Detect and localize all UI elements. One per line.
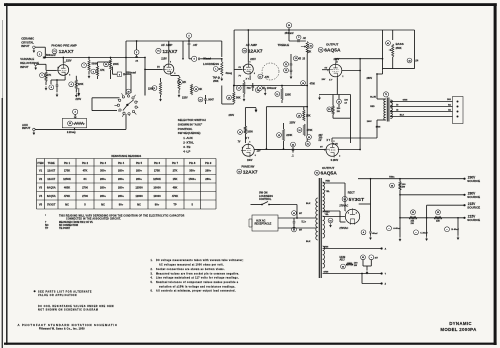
- svg-text:270VAC: 270VAC: [339, 227, 348, 230]
- svg-text:.047: .047: [193, 44, 198, 47]
- speaker wires: [390, 101, 452, 117]
- svg-text:Pin 8: Pin 8: [189, 161, 196, 165]
- label 12V: [257, 151, 262, 153]
- capacitor C5 .047 top: [186, 33, 198, 48]
- output label top: [326, 42, 339, 46]
- svg-text:740: 740: [247, 87, 252, 90]
- svg-text:VARIABLE: VARIABLE: [20, 57, 34, 61]
- svg-text:280+: 280+: [118, 177, 124, 181]
- svg-text:BLUE: BLUE: [370, 97, 376, 99]
- wire plate V4 drop: [376, 120, 378, 138]
- svg-text:OUTPUT: OUTPUT: [322, 166, 335, 170]
- svg-text:6AQ5A: 6AQ5A: [324, 48, 341, 54]
- wire bus2: [221, 41, 223, 57]
- svg-text:©Howard W. Sams & Co., Inc. 19: ©Howard W. Sams & Co., Inc. 1959: [39, 328, 85, 331]
- svg-text:4 -LP: 4 -LP: [183, 150, 190, 154]
- label 290V SOURCE: [467, 176, 480, 183]
- svg-text:DYNAMIC: DYNAMIC: [449, 321, 472, 326]
- tube label V1B 12AX7: [156, 48, 178, 55]
- svg-text:BRN: BRN: [376, 127, 381, 129]
- svg-text:VALUE OR APPLICATION: VALUE OR APPLICATION: [38, 294, 77, 297]
- cathode V2A: [250, 63, 279, 80]
- label 270VAC top: [339, 205, 348, 208]
- svg-text:Pin 2: Pin 2: [82, 161, 89, 165]
- treble label: [278, 43, 290, 47]
- resistor R7 500K: [82, 57, 98, 79]
- svg-text:SOURCE: SOURCE: [467, 195, 480, 199]
- photofact line: [18, 323, 118, 327]
- svg-text:X Y: X Y: [327, 140, 331, 142]
- grid wire V3: [322, 67, 330, 81]
- svg-text:6.: 6.: [151, 291, 153, 293]
- wire bass box: [382, 30, 415, 70]
- svg-text:250K: 250K: [213, 81, 219, 83]
- svg-text:1: 1: [327, 70, 328, 72]
- svg-text:8: 8: [255, 155, 256, 157]
- line cap CM7a: [292, 211, 303, 216]
- svg-text:2K: 2K: [183, 81, 186, 84]
- label BRN: [376, 127, 381, 129]
- svg-text:250mmf: 250mmf: [285, 33, 294, 35]
- svg-text:SOURCE: SOURCE: [467, 179, 480, 183]
- svg-text:mf: mf: [319, 140, 322, 142]
- wire feedback top: [234, 30, 414, 86]
- svg-text:8: 8: [254, 73, 255, 75]
- svg-text:350+: 350+: [189, 169, 195, 173]
- svg-text:SOURCE: SOURCE: [467, 218, 480, 222]
- svg-text:27K: 27K: [47, 74, 52, 77]
- svg-text:Measured values are from socke: Measured values are from socket pin to c…: [156, 272, 240, 275]
- capacitor C5 .02: [289, 35, 307, 42]
- aux receptacle: [249, 215, 278, 231]
- svg-text:NC: NC: [65, 203, 69, 207]
- svg-text:470K: 470K: [307, 129, 313, 132]
- svg-text:.04: .04: [415, 60, 419, 63]
- wire rail 215V a: [427, 204, 466, 206]
- label 0V lower: [320, 147, 323, 149]
- svg-text:6: 6: [250, 61, 251, 63]
- aux jack J3: [33, 128, 35, 135]
- fuse 5.1: [302, 221, 307, 223]
- wire input to C1: [37, 64, 57, 70]
- svg-text:6AQ5A: 6AQ5A: [321, 171, 338, 177]
- svg-text:235V: 235V: [290, 122, 296, 125]
- svg-text:RESISTANCE READINGS: RESISTANCE READINGS: [111, 155, 141, 158]
- phono pre amp label: [51, 44, 76, 48]
- svg-text:1: 1: [324, 149, 325, 151]
- label GRN top: [323, 247, 328, 249]
- svg-text:CONNECTED IN THE ASSOCIATED CI: CONNECTED IN THE ASSOCIATED CIRCUIT.: [66, 218, 121, 221]
- svg-text:All controls at minimum, prope: All controls at minimum, proper output l…: [156, 290, 236, 293]
- svg-text:1.: 1.: [151, 260, 153, 262]
- svg-text:56K: 56K: [236, 97, 241, 100]
- wire loudness to bus: [222, 85, 235, 104]
- capacitor C18: [252, 83, 261, 92]
- capacitor C8 86mmf: [182, 41, 211, 61]
- svg-text:BASS: BASS: [396, 42, 404, 46]
- wire loudness: [205, 58, 223, 104]
- svg-text:220K: 220K: [285, 93, 291, 96]
- resistance readings table: [37, 155, 217, 209]
- svg-text:22K: 22K: [436, 221, 440, 223]
- svg-text:12800: 12800: [135, 194, 143, 198]
- label 270VAC bottom: [339, 227, 348, 230]
- svg-text:.0047: .0047: [208, 99, 215, 102]
- svg-text:2.2meg: 2.2meg: [67, 131, 76, 134]
- resistor R5 27K cathode: [40, 72, 52, 91]
- label 280V SOURCE: [467, 192, 480, 199]
- loudness 3meg: [226, 72, 233, 75]
- svg-text:2: 2: [342, 76, 343, 78]
- triode V1B af amp: [163, 61, 176, 75]
- svg-text:TIE POINT: TIE POINT: [59, 228, 71, 230]
- svg-text:Line voltage maintained at 117: Line voltage maintained at 117 volts for…: [156, 277, 239, 280]
- power transformer T2 core: [319, 178, 321, 278]
- filter grounds: [399, 236, 459, 242]
- filter cap C20B 20mf: [414, 230, 428, 235]
- svg-text:12AX7: 12AX7: [47, 177, 56, 181]
- svg-text:CRYSTAL: CRYSTAL: [21, 40, 34, 44]
- wire aux to R26: [35, 128, 126, 130]
- svg-text:280+: 280+: [100, 194, 106, 198]
- svg-text:47K: 47K: [83, 169, 88, 173]
- variable reluctance jack J2: [35, 63, 37, 65]
- label 160V: [247, 160, 253, 162]
- bass control R41: [386, 41, 404, 69]
- svg-text:variation of ±15% in voltage a: variation of ±15% in voltage and resista…: [159, 285, 236, 288]
- svg-text:2700: 2700: [82, 186, 88, 190]
- pentode V3: [327, 62, 343, 78]
- wire grid bus: [43, 57, 146, 59]
- svg-text:4Ω: 4Ω: [448, 108, 451, 111]
- ground at reluctance input: [35, 66, 37, 70]
- svg-text:Pin 6: Pin 6: [154, 161, 161, 165]
- wire selector feed: [126, 58, 145, 96]
- hum adj: [340, 256, 346, 262]
- svg-text:280+: 280+: [205, 169, 211, 173]
- svg-text:240V: 240V: [229, 114, 235, 117]
- dc coil note: [38, 305, 114, 311]
- wire power top: [278, 205, 317, 229]
- cap bubble C94: [328, 218, 333, 227]
- svg-text:C 20mf: C 20mf: [420, 232, 428, 234]
- wire 215V feed: [75, 62, 110, 101]
- svg-text:5.: 5.: [151, 282, 153, 284]
- resistor R12 220K: [277, 123, 293, 150]
- svg-text:NC: NC: [137, 203, 141, 207]
- svg-text:2: 2: [356, 212, 357, 214]
- resistor R14 22K: [171, 76, 187, 98]
- wire plate V3: [336, 59, 383, 64]
- svg-text:215V: 215V: [66, 59, 72, 62]
- capacitor C15 .0047: [190, 84, 202, 95]
- svg-text:27K: 27K: [173, 169, 178, 173]
- svg-text:290V: 290V: [367, 121, 372, 123]
- resistor R17 resistor: [236, 80, 251, 101]
- svg-text:INPUT: INPUT: [22, 126, 31, 130]
- svg-text:V3: V3: [39, 186, 43, 190]
- svg-text:280V: 280V: [367, 77, 373, 80]
- svg-text:7V: 7V: [157, 67, 160, 69]
- svg-text:TAP @: TAP @: [213, 77, 221, 80]
- wire selector to V1 grid: [52, 63, 54, 65]
- capacitor C2 aux: [73, 109, 78, 118]
- svg-text:221V: 221V: [250, 58, 256, 61]
- triode V2B phase inv: [241, 142, 256, 158]
- svg-text:8: 8: [69, 74, 70, 76]
- svg-text:1 -AUX: 1 -AUX: [183, 136, 193, 140]
- svg-text:3.: 3.: [151, 273, 153, 275]
- svg-text:2: 2: [339, 155, 340, 157]
- resistor R8 47K: [91, 62, 105, 79]
- rectifier tube V5: [345, 208, 359, 224]
- svg-text:32: 32: [396, 110, 398, 112]
- speaker labels: [396, 99, 451, 116]
- svg-text:160V: 160V: [247, 160, 253, 162]
- resistor R3 220K grid: [148, 78, 162, 101]
- wire hv bottom to rect: [323, 211, 346, 222]
- svg-text:175K: 175K: [154, 169, 160, 173]
- wire cap box: [113, 67, 132, 94]
- svg-text:7: 7: [242, 148, 243, 150]
- power hv secondary: [323, 182, 325, 212]
- capacitor C1 500mmf: [37, 52, 56, 59]
- svg-text:80+: 80+: [155, 203, 160, 207]
- svg-text:MODEL 2000PA: MODEL 2000PA: [440, 327, 477, 332]
- svg-text:280+: 280+: [100, 177, 106, 181]
- filter cap C20C 40mf: [445, 227, 459, 232]
- filament wire 3: [361, 273, 386, 286]
- filter cap C20A 40mf: [387, 226, 401, 231]
- svg-text:280+: 280+: [136, 169, 142, 173]
- svg-text:6: 6: [170, 61, 171, 63]
- resistor R19 470K: [297, 124, 313, 136]
- triode V2A right: [242, 61, 255, 75]
- svg-text:10000: 10000: [153, 194, 161, 198]
- wire top box left: [125, 41, 222, 58]
- svg-text:4.: 4.: [151, 277, 153, 280]
- svg-text:1000: 1000: [247, 131, 253, 134]
- capacitor C25 250mmf: [285, 23, 294, 41]
- svg-text:50: 50: [396, 105, 398, 107]
- capacitor C19 100mf output cathode: [337, 95, 349, 108]
- hum wires2: [363, 259, 371, 274]
- resistor R30 100K: [104, 57, 119, 79]
- svg-text:10000: 10000: [153, 186, 161, 190]
- svg-text:12500: 12500: [135, 186, 143, 190]
- label 221V: [250, 58, 256, 61]
- wire plate V2A: [247, 29, 249, 62]
- capacitor C20 100mf: [305, 135, 323, 147]
- capacitor C9 500mmf: [117, 71, 136, 76]
- filament wires: [323, 247, 387, 250]
- wire treble stack: [301, 54, 316, 144]
- label 215V af: [182, 97, 188, 100]
- svg-text:B 40mf: B 40mf: [451, 228, 459, 231]
- transformer T1 bubble: [383, 92, 388, 97]
- svg-text:DC COIL RESISTANCE VALUES UNDE: DC COIL RESISTANCE VALUES UNDER ONE OHM: [38, 305, 114, 308]
- output transformer primary: [377, 99, 386, 120]
- svg-text:V4: V4: [39, 194, 43, 198]
- svg-text:Pin 9: Pin 9: [205, 161, 212, 165]
- svg-text:250K: 250K: [396, 47, 402, 50]
- svg-text:8: 8: [174, 73, 175, 75]
- tube label V5 5Y3GT: [342, 196, 364, 202]
- triode V1A: [57, 62, 71, 77]
- tube label V4 6AQ5A: [315, 170, 338, 176]
- svg-text:15K: 15K: [173, 177, 178, 181]
- svg-text:1250K: 1250K: [63, 177, 71, 181]
- svg-text:THIS READING WILL VARY DEPENDI: THIS READING WILL VARY DEPENDING UPON TH…: [59, 214, 185, 217]
- svg-text:Pin 7: Pin 7: [172, 161, 179, 165]
- svg-text:12AX7: 12AX7: [243, 169, 258, 175]
- svg-text:7V: 7V: [238, 141, 241, 143]
- svg-text:25K: 25K: [307, 50, 312, 53]
- svg-text:CONTROL: CONTROL: [259, 198, 272, 201]
- wire phase grid: [244, 108, 246, 143]
- svg-text:12AX7: 12AX7: [248, 48, 263, 54]
- svg-text:TP: TP: [45, 227, 49, 230]
- label GRN bottom: [323, 272, 328, 274]
- svg-text:7: 7: [243, 66, 244, 68]
- svg-text:215V: 215V: [75, 98, 81, 101]
- svg-text:RECT: RECT: [348, 192, 355, 195]
- label RED: [326, 181, 331, 183]
- svg-text:DC voltage measurements taken: DC voltage measurements taken with vacuu…: [156, 259, 244, 262]
- svg-text:Pin 4: Pin 4: [118, 161, 125, 165]
- capacitor C10 100mmf: [258, 86, 277, 96]
- svg-text:5Y3GT: 5Y3GT: [349, 197, 365, 203]
- svg-text:CERAMIC: CERAMIC: [21, 36, 34, 40]
- label 75Ma: [389, 176, 395, 178]
- svg-text:465K: 465K: [64, 186, 70, 190]
- wire rail drops: [399, 195, 459, 237]
- wire screen V3: [342, 58, 361, 90]
- svg-text:12V: 12V: [257, 151, 262, 153]
- resistor R11 220K: [275, 85, 291, 103]
- svg-text:500mmf: 500mmf: [46, 54, 56, 57]
- svg-text:6AQ5A: 6AQ5A: [47, 186, 56, 190]
- svg-text:2 -XTAL: 2 -XTAL: [183, 140, 194, 144]
- svg-text:1500+: 1500+: [189, 177, 197, 181]
- ceramic input jack J1: [33, 46, 46, 58]
- label YEL: [326, 191, 331, 193]
- svg-text:5: 5: [337, 62, 338, 64]
- sw on loudness label: [259, 192, 273, 201]
- svg-text:500K: 500K: [92, 63, 98, 66]
- svg-text:*: *: [45, 214, 46, 217]
- voltage label 215V plate: [66, 59, 72, 62]
- svg-text:A 40mf: A 40mf: [393, 227, 400, 230]
- label RED YEL: [325, 212, 331, 217]
- tube label V3 6AQ5A: [318, 47, 341, 53]
- tube label V1A 12AX7: [52, 49, 74, 55]
- svg-text:47K: 47K: [265, 76, 270, 79]
- see parts list note: [34, 290, 92, 297]
- svg-text:AF AMP: AF AMP: [246, 43, 257, 47]
- selector notes: [178, 118, 206, 154]
- svg-text:12AX7: 12AX7: [162, 49, 177, 55]
- svg-text:200K: 200K: [113, 63, 119, 66]
- svg-text:SHOWN IN "AUX": SHOWN IN "AUX": [178, 122, 203, 126]
- svg-text:A PHOTOFACT STANDARD NOTATION: A PHOTOFACT STANDARD NOTATION SCHEMATIC: [18, 323, 118, 327]
- svg-text:GRN: GRN: [403, 99, 408, 101]
- wire cathode V1A: [51, 77, 65, 84]
- phase inv label: [242, 166, 255, 169]
- svg-text:26V: 26V: [322, 79, 326, 81]
- svg-text:MEASURED FROM PIN 2 OF V5.: MEASURED FROM PIN 2 OF V5.: [59, 221, 94, 224]
- svg-text:Socket connections are shown a: Socket connections are shown as bottom v…: [156, 268, 225, 271]
- svg-text:PHASE INV: PHASE INV: [242, 166, 255, 169]
- treble pot R42: [301, 42, 313, 54]
- wire rect cathode: [359, 178, 378, 240]
- svg-text:X Y: X Y: [246, 138, 250, 140]
- tube label V2B 12AX7: [237, 169, 258, 175]
- label 215V SOURCE b: [467, 215, 480, 222]
- capacitor C42 .04: [407, 58, 419, 63]
- hum pot R96: [341, 263, 359, 269]
- label BLUE: [370, 97, 376, 108]
- resistor R18 25K: [297, 107, 311, 121]
- svg-text:280+: 280+: [100, 186, 106, 190]
- svg-text:INPUT: INPUT: [21, 44, 30, 48]
- svg-text:12AX7: 12AX7: [47, 169, 56, 173]
- hum caps: [361, 255, 379, 260]
- svg-text:470K: 470K: [310, 82, 316, 85]
- resistor R20 250 2W: [327, 95, 341, 119]
- wire mid vertical: [245, 106, 308, 150]
- svg-text:mf: mf: [344, 102, 347, 104]
- label 280V right: [367, 77, 373, 80]
- svg-text:280+: 280+: [118, 194, 124, 198]
- notes list: [151, 259, 244, 292]
- svg-text:280+: 280+: [118, 186, 124, 190]
- capacitor C6 cathode bypass: [49, 79, 58, 97]
- resistor R16 56K: [227, 92, 241, 103]
- label 215V SOURCE a: [467, 202, 480, 209]
- svg-text:NC: NC: [101, 203, 105, 207]
- svg-text:5.1+: 5.1+: [302, 221, 307, 223]
- svg-text:470K: 470K: [172, 194, 178, 198]
- svg-text:3meg: 3meg: [226, 72, 233, 75]
- svg-text:ADJ: ADJ: [340, 259, 346, 262]
- resistor R26 2.2meg: [62, 118, 86, 133]
- rect filament wire: [323, 216, 346, 218]
- coupling cap C22 .1: [291, 142, 296, 157]
- rect label: [348, 192, 355, 195]
- output label bottom: [322, 166, 335, 170]
- svg-text:V2: V2: [39, 177, 43, 181]
- svg-text:350+: 350+: [100, 169, 106, 173]
- tone caps C11 C12: [284, 54, 293, 79]
- svg-text:TP: TP: [173, 203, 177, 207]
- grid wire V2A: [234, 67, 250, 81]
- wire rail 280V: [399, 194, 465, 196]
- svg-text:4: 4: [348, 211, 349, 214]
- svg-text:RECEPTACLE: RECEPTACLE: [255, 223, 272, 226]
- power fil secondary 2: [323, 246, 325, 268]
- grid wire V1B: [144, 67, 162, 70]
- svg-text:PHONO PRE AMP: PHONO PRE AMP: [51, 44, 76, 48]
- svg-text:215V: 215V: [161, 57, 167, 60]
- copyright line: [39, 328, 85, 331]
- wire plate V4: [332, 138, 377, 142]
- svg-text:X Y: X Y: [329, 80, 333, 82]
- svg-text:280+: 280+: [118, 169, 124, 173]
- loudness label: [203, 62, 219, 66]
- svg-text:OUTPUT: OUTPUT: [326, 42, 339, 46]
- svg-text:215V: 215V: [182, 97, 188, 100]
